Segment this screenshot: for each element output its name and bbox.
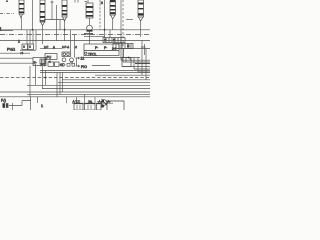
tick marks	[75, 0, 78, 3]
svg-text:21: 21	[81, 57, 85, 61]
sensor circles	[62, 58, 66, 62]
box PU	[45, 54, 57, 60]
thick seg under ring	[84, 33, 93, 35]
bottom-left blob	[3, 103, 5, 108]
wire x76.5	[76, 58, 78, 67]
bus line y40.5	[0, 40, 150, 42]
svg-text:PU: PU	[47, 55, 52, 59]
cluster boxes left	[20, 44, 36, 50]
svg-text:TPCL: TPCL	[88, 52, 97, 56]
wire vertical F dashed	[122, 0, 124, 49]
arrow 21	[76, 57, 80, 59]
svg-text:PIO: PIO	[81, 65, 87, 69]
wire vertical G	[70, 30, 72, 53]
svg-text:Jw,: Jw,	[88, 99, 93, 103]
junction on dashed	[45, 77, 47, 79]
hatch row 2	[113, 44, 133, 49]
svg-text:-A: -A	[98, 99, 101, 103]
bottom bus stack	[62, 79, 150, 81]
left edge stub	[0, 27, 2, 31]
svg-text:2·P·Δ: 2·P·Δ	[62, 45, 69, 49]
svg-text:F.(): F.()	[1, 99, 6, 103]
dashed bus y77.5	[0, 77, 150, 79]
svg-text:Δ: Δ	[53, 45, 55, 49]
wire I3 stem	[64, 21, 66, 41]
staircase horizontals	[121, 60, 150, 62]
wire y57.5	[84, 57, 140, 59]
wire y72.5	[40, 72, 150, 74]
relay box K1	[33, 58, 46, 66]
staircase right verticals	[126, 41, 146, 80]
bottom-right box	[107, 101, 124, 110]
injector I6	[138, 0, 144, 21]
drop wires to connector	[67, 94, 96, 103]
svg-text:P¼Ω: P¼Ω	[7, 48, 15, 52]
svg-text:A·T.C: A·T.C	[73, 99, 81, 103]
small box a	[48, 62, 54, 66]
wire seg y19 right	[126, 19, 133, 21]
svg-text:1: 1	[41, 104, 43, 108]
plus mark	[51, 1, 54, 4]
centerline y34.5 dash-dot	[0, 34, 150, 36]
wire y65.5	[92, 65, 110, 67]
injector I2	[40, 0, 45, 26]
wire I1 stem	[21, 18, 23, 30]
wire ring to bus	[89, 32, 91, 45]
ECU box U1	[84, 44, 119, 56]
wire y63	[0, 62, 33, 64]
svg-text:P·: P·	[104, 46, 107, 50]
wire vertical H	[74, 35, 76, 58]
bottom-left wires	[9, 97, 38, 110]
coil T1	[85, 0, 94, 18]
wire x60	[59, 20, 61, 30]
arrowhead left	[48, 60, 51, 63]
wire vertical A	[32, 0, 34, 30]
svg-text:·2: ·2	[75, 45, 78, 49]
svg-text:2·P: 2·P	[44, 45, 48, 49]
bottom-center boxes	[74, 104, 101, 110]
arrow PIO	[76, 65, 80, 67]
wire y48.5 left-mid	[40, 48, 62, 50]
wire x123.5 drop	[123, 49, 125, 58]
svg-text:41: 41	[60, 63, 64, 67]
staircase box	[122, 58, 131, 67]
terminal circles	[85, 52, 87, 54]
wire x12.5 bottom-left	[12, 103, 14, 110]
cluster drop wires	[27, 30, 36, 51]
wire vertical E	[120, 0, 122, 60]
wire vertical C dashed	[99, 0, 101, 30]
relay circles box	[62, 52, 71, 57]
svg-text:P·: P·	[95, 46, 98, 50]
wire x52	[51, 4, 53, 20]
wire T1 stem	[89, 18, 91, 25]
injector I3	[62, 0, 67, 21]
wire x144.5 stub	[141, 44, 146, 55]
small box b	[55, 62, 60, 66]
dash-dot segment top-left	[0, 13, 14, 15]
wire y53	[0, 52, 30, 54]
injector I5	[110, 0, 116, 19]
wire I6 stem	[140, 21, 142, 37]
wire y58	[0, 57, 33, 59]
wire x110	[109, 30, 111, 38]
junction dots on bus	[32, 29, 34, 31]
svg-text:2·8: 2·8	[112, 46, 117, 50]
wire vertical D	[104, 0, 106, 38]
node dot top-left	[6, 0, 8, 2]
bottom-center wire	[72, 102, 113, 104]
wire y70.5	[40, 70, 150, 72]
wire I5 stem	[112, 19, 114, 30]
hatch row 1	[103, 38, 125, 43]
wire y36.6	[84, 36, 105, 38]
wire I2 stem	[42, 26, 44, 45]
spark plug ring	[87, 25, 93, 31]
injector I1	[19, 0, 24, 18]
wire y48.5 right	[112, 48, 150, 50]
svg-text:2: 2	[18, 40, 20, 44]
svg-text:P·T: P·T	[41, 63, 46, 67]
left drop wires to bottom	[30, 63, 63, 97]
wire vertical B	[56, 5, 58, 41]
bus line y29.5	[0, 29, 150, 31]
wire seg y19 left	[44, 19, 65, 21]
wire y75.2	[95, 74, 150, 76]
pump glyph	[101, 99, 107, 108]
